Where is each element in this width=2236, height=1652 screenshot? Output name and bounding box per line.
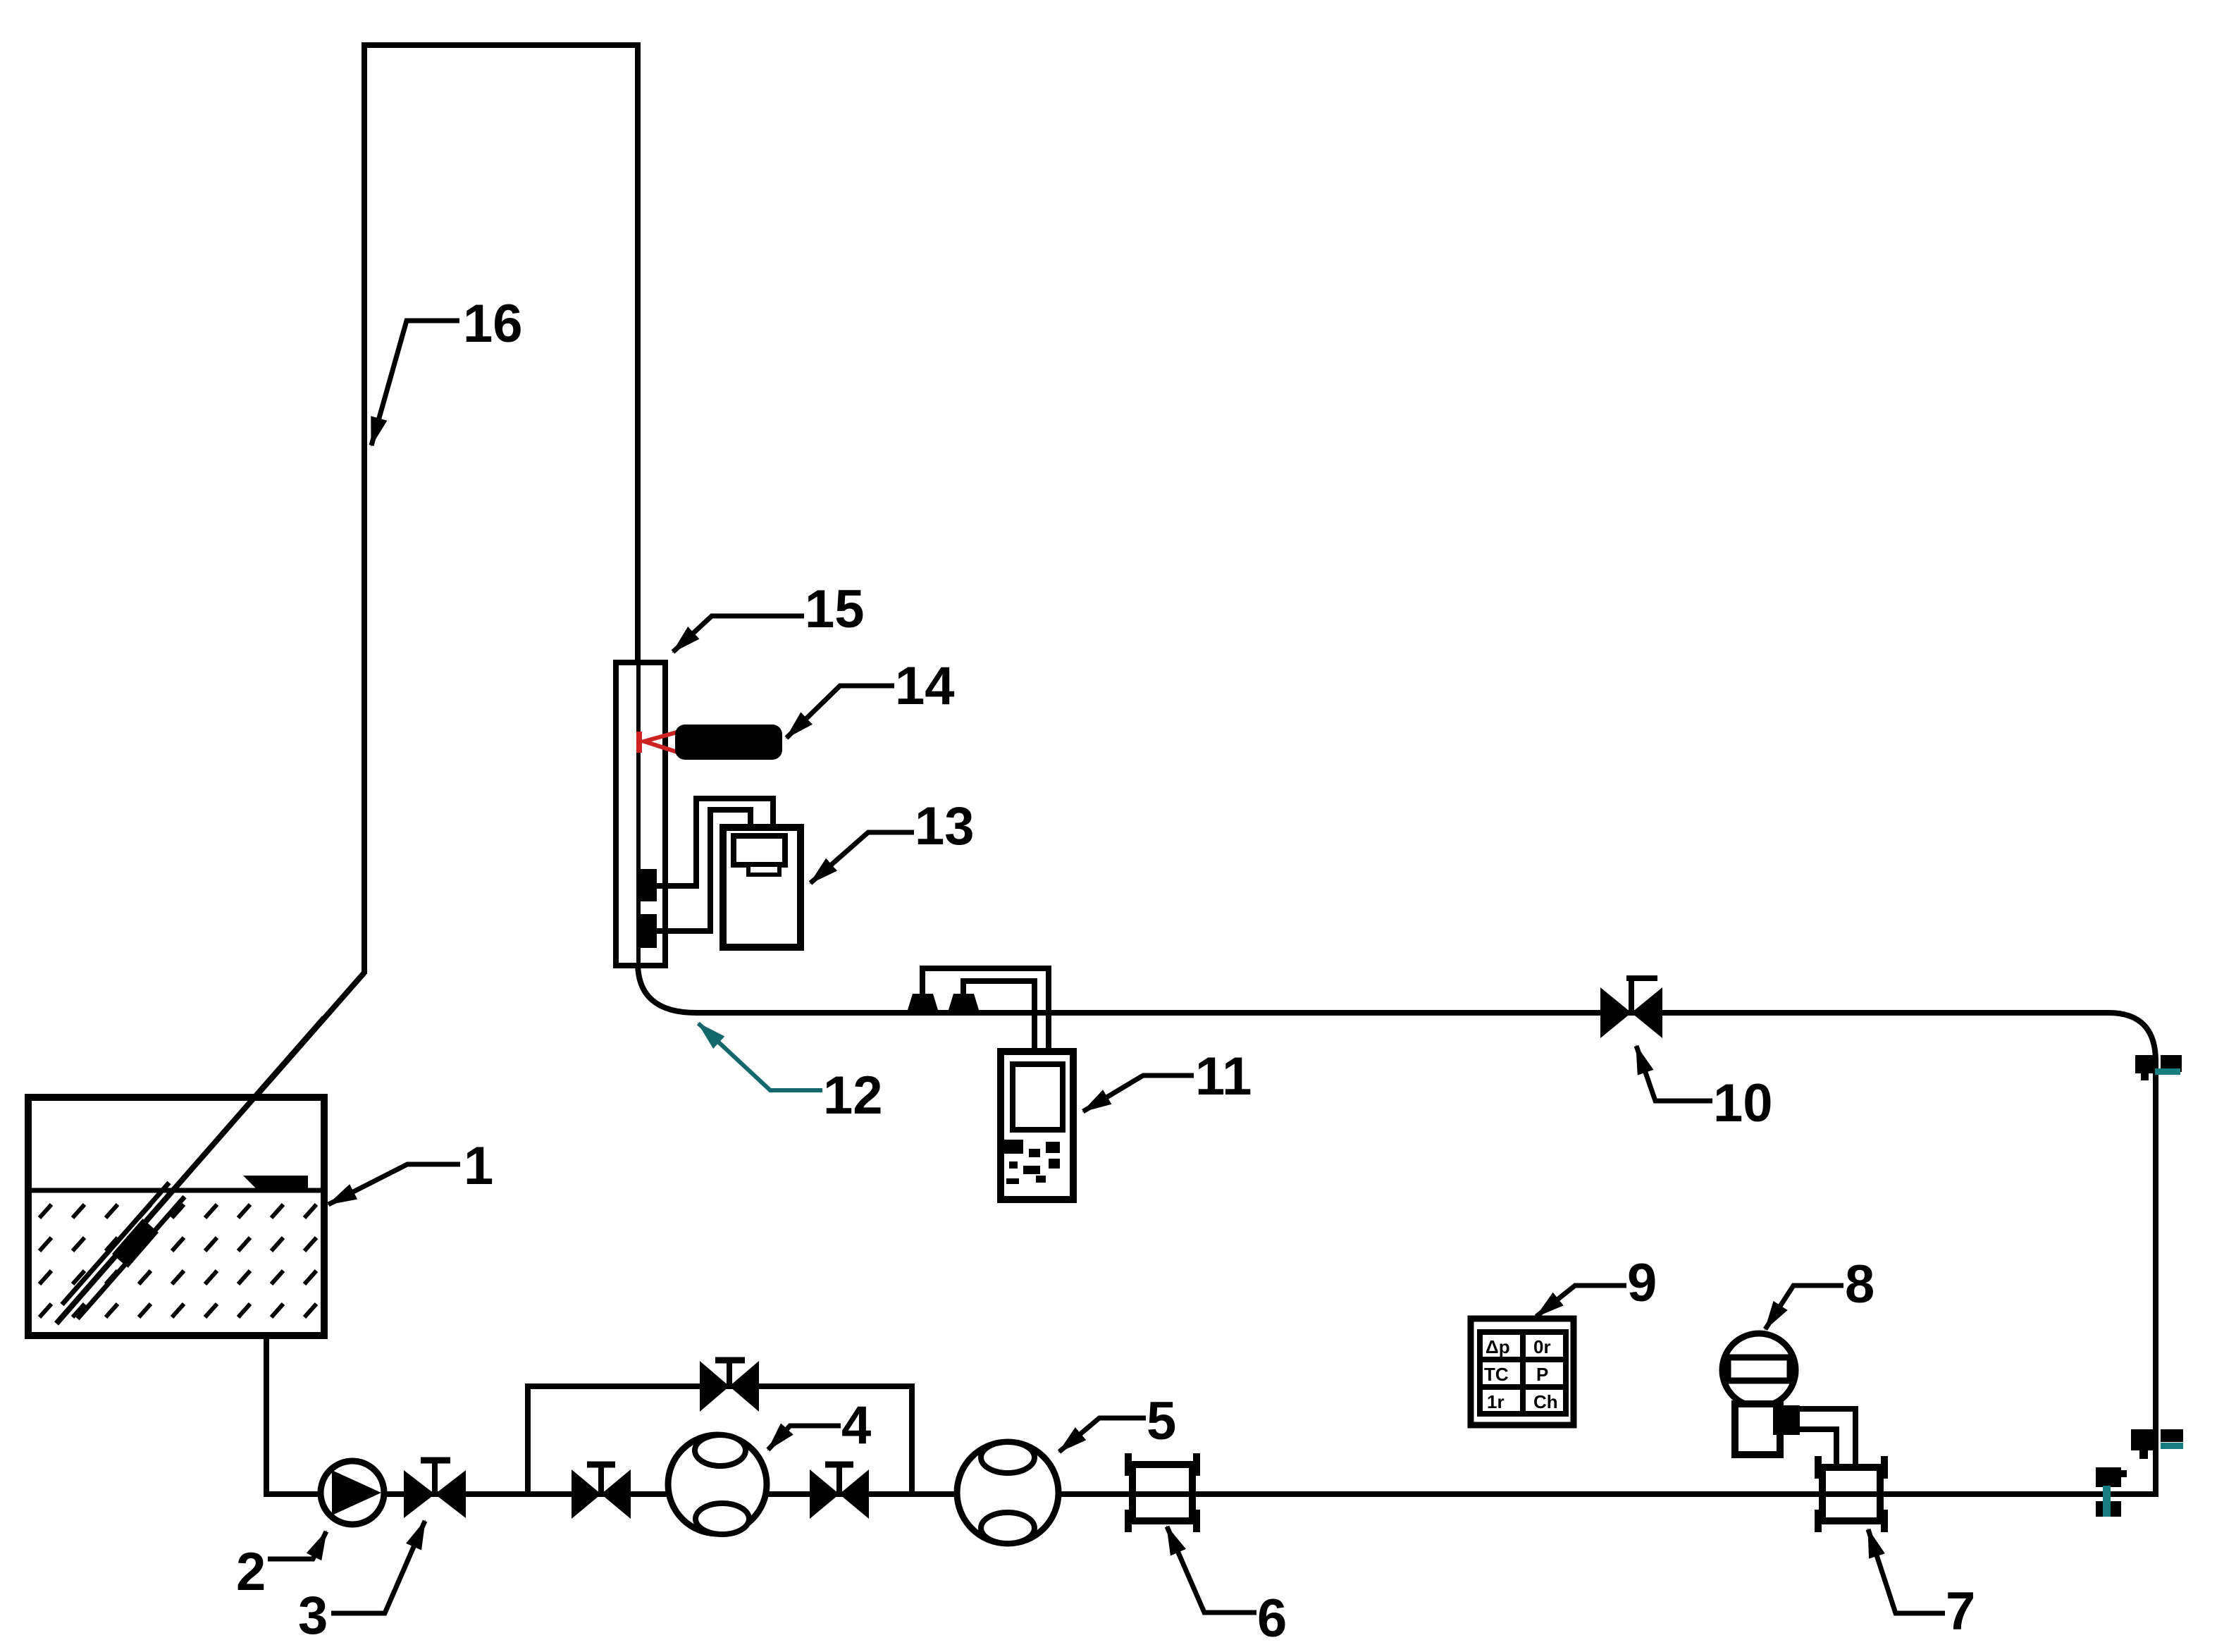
valve 10 — [1600, 978, 1662, 1038]
panel 9 — [1471, 1319, 1574, 1425]
svg-text:1r: 1r — [1487, 1391, 1505, 1412]
label 7 leader — [1868, 1529, 1975, 1641]
diagonal inflow pipe from column into tank — [56, 973, 364, 1324]
svg-text:10: 10 — [1713, 1073, 1773, 1133]
valve 3 — [404, 1460, 466, 1518]
logger device 13 — [723, 827, 801, 947]
clamp-on sensor pads on top pipe — [908, 994, 979, 1010]
svg-text:12: 12 — [823, 1066, 883, 1126]
plate 15 on column wall — [616, 662, 665, 966]
svg-text:6: 6 — [1257, 1589, 1287, 1648]
inline valve left of meter 4 — [572, 1465, 631, 1519]
flow meter 4 — [668, 1435, 767, 1534]
red clamp clip — [636, 732, 679, 753]
svg-text:Ch: Ch — [1533, 1391, 1558, 1412]
label 10 leader — [1636, 1046, 1773, 1133]
label 14 leader — [786, 656, 955, 738]
handheld meter 11 — [1001, 1052, 1073, 1200]
svg-text:13: 13 — [915, 796, 975, 856]
label 13 leader — [810, 796, 975, 883]
sensor pad A on plate — [638, 869, 657, 901]
inline valve right of meter 4 — [810, 1465, 869, 1519]
svg-text:5: 5 — [1147, 1391, 1176, 1451]
svg-text:P: P — [1536, 1364, 1548, 1385]
heater cylinder 14 — [675, 725, 782, 760]
nozzle tube on diagonal pipe end — [62, 1183, 185, 1319]
svg-text:9: 9 — [1627, 1253, 1657, 1313]
port valve on right vertical line — [2131, 1429, 2183, 1459]
svg-text:7: 7 — [1946, 1582, 1975, 1641]
wire bypass loop — [528, 1386, 912, 1494]
tank 1 — [28, 1097, 324, 1336]
label 12 leader (teal) — [698, 1023, 883, 1126]
svg-text:4: 4 — [841, 1395, 871, 1455]
label 11 leader — [1083, 1047, 1252, 1111]
label 6 leader — [1167, 1527, 1287, 1648]
pump 2 — [321, 1461, 384, 1524]
svg-text:TC: TC — [1484, 1364, 1509, 1385]
svg-text:15: 15 — [805, 579, 865, 639]
wire pad A to device 13 — [657, 799, 773, 886]
label 9 leader — [1536, 1253, 1657, 1317]
svg-text:Δp: Δp — [1485, 1336, 1510, 1357]
re-draw diagonal over tank interior — [56, 1018, 324, 1324]
svg-text:2: 2 — [236, 1542, 266, 1602]
gas meter 8 — [1722, 1333, 1855, 1469]
sensor fitting 6 — [1128, 1453, 1197, 1532]
svg-text:1: 1 — [464, 1136, 493, 1196]
bypass valve — [700, 1360, 759, 1412]
label 2 leader — [236, 1531, 326, 1602]
svg-text:3: 3 — [298, 1586, 328, 1646]
svg-text:11: 11 — [1195, 1047, 1252, 1107]
svg-text:8: 8 — [1845, 1255, 1874, 1314]
label 15 leader — [673, 579, 865, 652]
svg-text:14: 14 — [895, 656, 955, 716]
label 5 leader — [1059, 1391, 1176, 1452]
label 3 leader — [298, 1521, 425, 1646]
wire pad B to device 13 — [657, 810, 751, 931]
label 1 leader — [328, 1136, 493, 1204]
label 8 leader — [1765, 1255, 1874, 1329]
sensor fitting 7 — [1818, 1456, 1884, 1532]
wire main piping loop: column 16 outline, top pipe, right vertical, bottom main line, tank outlet riser — [266, 45, 2156, 1494]
flow meter 5 — [957, 1442, 1058, 1543]
label 4 leader — [768, 1395, 871, 1455]
port valve below top-right corner — [2135, 1055, 2182, 1080]
cable loop inner — [963, 981, 1034, 1053]
label 16 leader — [371, 294, 523, 445]
cable loop outer — [922, 968, 1049, 1053]
sensor pad B on plate — [638, 914, 657, 948]
svg-text:0r: 0r — [1533, 1336, 1551, 1357]
svg-text:16: 16 — [463, 294, 523, 354]
port valve on bottom main line near corner — [2096, 1467, 2127, 1517]
